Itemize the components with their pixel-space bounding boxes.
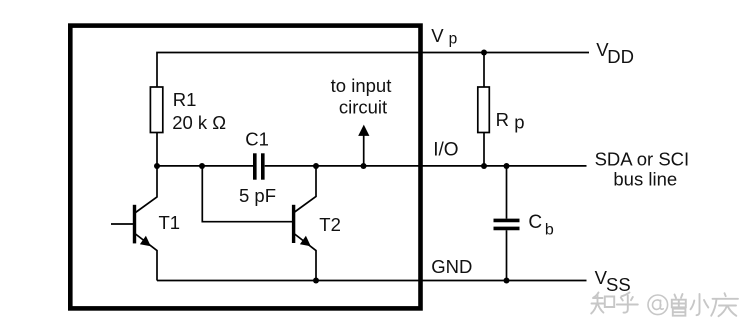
node Rp bottom on I/O rail	[481, 163, 487, 169]
T2 emitter	[295, 234, 316, 281]
arrow to input circuit	[363, 134, 365, 166]
capacitor C1	[255, 153, 263, 179]
svg-text:20 k Ω: 20 k Ω	[172, 112, 226, 133]
node T2 collector	[313, 163, 319, 169]
svg-text:bus line: bus line	[613, 169, 677, 190]
svg-text:R: R	[496, 109, 509, 130]
svg-text:DD: DD	[607, 46, 634, 67]
node Cb bottom on GND rail	[504, 278, 510, 284]
svg-text:C: C	[528, 212, 542, 233]
node Rp top on Vp rail	[481, 50, 487, 56]
node Cb top on I/O rail	[504, 163, 510, 169]
T1 base bar	[133, 205, 136, 244]
T2 base bar	[292, 205, 295, 243]
resistor R1	[150, 87, 162, 133]
T1 emitter	[136, 234, 158, 281]
svg-text:V: V	[431, 25, 444, 46]
svg-text:SDA or SCI: SDA or SCI	[595, 148, 690, 169]
node R1/T1 on I/O rail	[154, 163, 160, 169]
wire Vp rail (top)	[157, 53, 589, 88]
wire GND rail	[157, 280, 587, 282]
svg-text:T2: T2	[319, 214, 341, 235]
T1 emitter arrow	[140, 236, 151, 247]
svg-text:I/O: I/O	[433, 139, 458, 160]
svg-text:p: p	[449, 30, 458, 47]
svg-text:SS: SS	[606, 274, 631, 295]
svg-text:5 pF: 5 pF	[239, 185, 276, 206]
T1 base stub	[111, 223, 133, 225]
transistor T2	[294, 166, 316, 281]
node T2 emitter on GND rail	[313, 278, 319, 284]
wire T2 base tap	[202, 166, 292, 222]
svg-text:GND: GND	[431, 256, 472, 277]
T2 collector	[295, 166, 316, 212]
device outline box	[70, 26, 420, 309]
resistor Rp	[483, 53, 485, 88]
svg-text:to input: to input	[331, 75, 392, 96]
svg-text:b: b	[545, 222, 554, 239]
wire R1 bottom lead	[156, 133, 158, 167]
node input arrow tap	[361, 163, 367, 169]
T2 emitter arrow	[300, 236, 311, 247]
capacitor Cb	[506, 166, 508, 219]
svg-text:R1: R1	[173, 89, 197, 110]
watermark zhihu @zengxiaoqing	[591, 293, 738, 317]
wire I/O rail	[157, 165, 587, 167]
T1 collector	[136, 166, 158, 213]
node T2 base tap	[199, 163, 205, 169]
svg-text:p: p	[514, 112, 524, 133]
svg-text:circuit: circuit	[339, 97, 387, 118]
svg-text:C1: C1	[245, 128, 269, 149]
svg-text:T1: T1	[159, 212, 181, 233]
transistor T1	[111, 166, 157, 281]
